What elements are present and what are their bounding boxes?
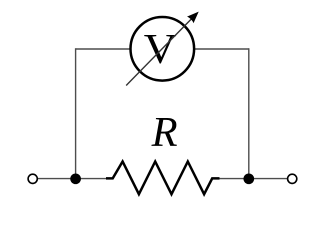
svg-text:V: V [144, 26, 177, 73]
svg-text:R: R [151, 109, 178, 156]
